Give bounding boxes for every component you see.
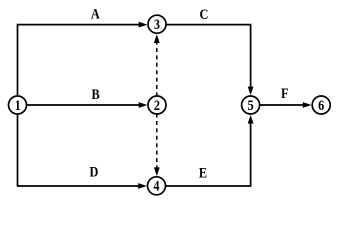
svg-text:A: A (91, 5, 100, 21)
node 4 (148, 177, 166, 195)
svg-text:4: 4 (153, 178, 159, 194)
svg-text:6: 6 (318, 97, 324, 113)
svg-text:2: 2 (154, 97, 160, 113)
wire activity C (node3 right then down to node5) (162, 25, 254, 96)
svg-text:B: B (92, 86, 100, 102)
wire activity B (node1 right to node2) (22, 102, 147, 108)
dashed dummy arrow node2 to node3 (154, 34, 160, 96)
node 6 (312, 96, 330, 114)
svg-text:C: C (200, 6, 209, 22)
svg-text:D: D (90, 164, 99, 180)
svg-text:1: 1 (15, 97, 21, 113)
svg-text:F: F (281, 85, 289, 101)
node 5 (242, 96, 260, 114)
wire activity E (node4 right then up to node5) (162, 115, 254, 186)
wire activity A (node1 up then right to node3) (18, 22, 148, 100)
node 3 (148, 15, 166, 33)
node 2 (148, 96, 166, 114)
svg-text:5: 5 (248, 97, 254, 113)
wire activity D (node1 down then right to node4) (18, 110, 147, 189)
node 1 (9, 96, 27, 114)
wire activity F (node5 right to node6) (256, 102, 312, 108)
svg-text:3: 3 (154, 16, 160, 32)
svg-text:E: E (199, 164, 207, 180)
dashed dummy arrow node2 to node4 (154, 114, 160, 177)
